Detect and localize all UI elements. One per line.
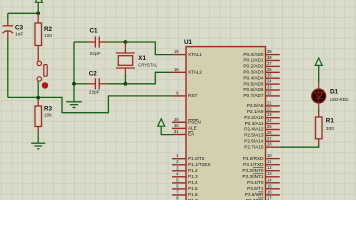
- svg-text:P2.6/A14: P2.6/A14: [244, 139, 264, 144]
- svg-text:P0.4/AD4: P0.4/AD4: [243, 75, 263, 80]
- power VCC arrow (LED): [315, 58, 322, 65]
- svg-text:P0.7/AD7: P0.7/AD7: [243, 93, 263, 98]
- capacitor C1: [88, 36, 107, 47]
- svg-text:21: 21: [267, 100, 272, 105]
- wire VCC to LED: [318, 65, 320, 83]
- svg-text:P0.2/AD2: P0.2/AD2: [243, 64, 263, 69]
- svg-text:D1: D1: [330, 88, 339, 95]
- svg-text:P2.3/A11: P2.3/A11: [245, 121, 264, 126]
- capacitor C3: [2, 21, 13, 38]
- wire XTAL2: [125, 72, 172, 84]
- svg-text:P1.6: P1.6: [188, 192, 198, 197]
- svg-text:P3.1/TXD: P3.1/TXD: [243, 162, 264, 167]
- svg-text:32: 32: [267, 90, 272, 95]
- capacitor C2: [88, 78, 107, 89]
- wire C1 horizontal: [74, 41, 88, 43]
- ground (bottom-left): [31, 143, 45, 149]
- resistor R3: [37, 99, 39, 106]
- ground (crystal caps): [66, 102, 82, 108]
- wire EA to VCC: [161, 126, 172, 134]
- svg-text:P2.0/A8: P2.0/A8: [247, 103, 264, 108]
- pin 8 P1.7 (left): [172, 196, 198, 204]
- svg-text:C2: C2: [89, 71, 98, 78]
- pin 2 P1.1/T2EX (left): [172, 159, 212, 167]
- pin 24 P2.3/A11 (right): [245, 118, 280, 126]
- svg-text:C3: C3: [15, 24, 24, 31]
- svg-text:P3.0/RXD: P3.0/RXD: [243, 156, 264, 161]
- pin 32 P0.7/AD7 (right): [243, 90, 279, 98]
- svg-text:100: 100: [44, 33, 52, 39]
- svg-text:P1.0/T2: P1.0/T2: [188, 156, 205, 161]
- svg-text:1nF: 1nF: [15, 31, 23, 37]
- svg-text:37: 37: [267, 61, 272, 66]
- svg-text:PSEN: PSEN: [188, 120, 201, 125]
- node crystal bottom: [124, 82, 128, 86]
- svg-text:P3.3/INT1: P3.3/INT1: [242, 174, 263, 179]
- pin 9 RST (left): [172, 90, 198, 98]
- svg-text:38: 38: [267, 55, 272, 60]
- svg-text:P3.2/INT0: P3.2/INT0: [242, 168, 263, 173]
- svg-text:EA: EA: [188, 132, 195, 137]
- svg-text:27: 27: [267, 136, 272, 141]
- IC U1 AT89C51 body: [186, 47, 266, 212]
- svg-text:16: 16: [267, 189, 272, 194]
- wire button to RST net: [37, 81, 39, 97]
- pin 29 PSEN (left): [172, 117, 201, 125]
- pin 37 P0.2/AD2 (right): [243, 61, 279, 69]
- wire VCC stem to node: [37, 2, 39, 13]
- svg-text:31: 31: [174, 129, 179, 134]
- svg-text:RST: RST: [188, 93, 198, 98]
- svg-text:33: 33: [267, 85, 272, 90]
- svg-text:23: 23: [267, 112, 272, 117]
- svg-text:P1.5: P1.5: [188, 186, 198, 191]
- svg-text:19: 19: [174, 49, 179, 54]
- svg-text:P1.1/T2EX: P1.1/T2EX: [188, 162, 212, 167]
- svg-text:15: 15: [267, 183, 272, 188]
- pin 31 EA (left): [172, 129, 195, 137]
- pin 14 P3.4/T0 (right): [247, 177, 280, 185]
- node crystal top: [124, 40, 128, 44]
- pin 39 P0.0/AD0 (right): [243, 49, 279, 57]
- svg-text:39: 39: [267, 49, 272, 54]
- svg-text:P3.7/RD: P3.7/RD: [246, 198, 264, 200]
- pin 7 P1.6 (left): [172, 190, 198, 198]
- svg-text:XTAL1: XTAL1: [188, 52, 202, 57]
- svg-text:14: 14: [267, 177, 272, 182]
- svg-text:28: 28: [267, 142, 272, 147]
- svg-text:XTAL2: XTAL2: [188, 70, 202, 75]
- LED D1: [312, 83, 326, 109]
- svg-text:24: 24: [267, 118, 272, 123]
- svg-text:18: 18: [174, 67, 179, 72]
- wire C1 left vertical: [73, 42, 75, 102]
- svg-text:C1: C1: [90, 28, 99, 35]
- pin 27 P2.6/A14 (right): [244, 136, 280, 144]
- wire R3 to ground: [37, 133, 39, 143]
- pin 34 P0.5/AD5 (right): [243, 79, 279, 87]
- svg-text:11: 11: [267, 159, 272, 164]
- pin 1 P1.0/T2 (left): [172, 153, 205, 161]
- pin 11 P3.1/TXD (right): [243, 159, 280, 167]
- svg-text:22pF: 22pF: [90, 51, 101, 57]
- pin 28 P2.7/A15 (right): [244, 142, 280, 150]
- pin 22 P2.1/A9 (right): [247, 106, 280, 114]
- svg-text:P1.7: P1.7: [188, 198, 198, 200]
- pin 18 XTAL2 (left): [172, 67, 202, 75]
- svg-text:P2.7/A15: P2.7/A15: [244, 144, 264, 149]
- pin 26 P2.5/A13 (right): [244, 130, 280, 138]
- wire LED to R1: [318, 109, 320, 113]
- svg-text:P3.6/WR: P3.6/WR: [245, 192, 264, 197]
- pin 5 P1.4 (left): [172, 177, 198, 185]
- pin 33 P0.6/AD6 (right): [243, 85, 279, 93]
- svg-text:P0.5/AD5: P0.5/AD5: [243, 81, 263, 86]
- pin 3 P1.2 (left): [172, 165, 198, 173]
- svg-text:P2.5/A13: P2.5/A13: [244, 133, 264, 138]
- svg-text:10k: 10k: [44, 113, 52, 119]
- svg-text:P2.2/A10: P2.2/A10: [244, 115, 264, 120]
- svg-text:P0.3/AD3: P0.3/AD3: [243, 70, 263, 75]
- node button/R3 junction: [36, 96, 40, 100]
- svg-text:34: 34: [267, 79, 272, 84]
- svg-text:P2.4/A12: P2.4/A12: [244, 127, 264, 132]
- svg-text:P3.4/T0: P3.4/T0: [247, 180, 264, 185]
- pin 21 P2.0/A8 (right): [247, 100, 280, 108]
- svg-text:P0.6/AD6: P0.6/AD6: [243, 87, 263, 92]
- svg-text:30: 30: [174, 123, 179, 128]
- pin 13 P3.3/INT1 (right): [242, 171, 279, 179]
- wire R1 to P2.7: [280, 143, 319, 148]
- wire C2 horizontal: [74, 83, 88, 85]
- svg-text:35: 35: [267, 73, 272, 78]
- svg-text:22pF: 22pF: [89, 89, 100, 95]
- svg-text:36: 36: [267, 67, 272, 72]
- svg-text:P3.5/T1: P3.5/T1: [247, 186, 264, 191]
- svg-text:10: 10: [267, 153, 272, 158]
- svg-text:R2: R2: [44, 26, 53, 33]
- svg-text:U1: U1: [184, 39, 193, 46]
- svg-text:17: 17: [267, 195, 272, 200]
- svg-text:P2.1/A9: P2.1/A9: [247, 109, 264, 114]
- svg-text:29: 29: [174, 117, 179, 122]
- pin 10 P3.0/RXD (right): [243, 153, 280, 161]
- svg-text:300: 300: [326, 126, 334, 132]
- pin 17 P3.7/RD (right): [246, 195, 280, 203]
- svg-text:X1: X1: [138, 55, 146, 62]
- svg-text:R3: R3: [44, 106, 53, 113]
- wire RST net (jogs around ground): [8, 96, 172, 113]
- svg-text:P1.4: P1.4: [188, 180, 198, 185]
- pin 38 P0.1/AD1 (right): [243, 55, 279, 63]
- pin 23 P2.2/A10 (right): [244, 112, 280, 120]
- power VCC arrow (top-left, clipped): [35, 0, 42, 2]
- svg-text:LED-RED: LED-RED: [330, 97, 348, 102]
- pin 25 P2.4/A12 (right): [244, 124, 280, 132]
- svg-text:13: 13: [267, 171, 272, 176]
- svg-text:P1.2: P1.2: [188, 168, 198, 173]
- svg-text:22: 22: [267, 106, 272, 111]
- pin 12 P3.2/INT0 (right): [242, 165, 279, 173]
- power VCC arrow (EA pin): [158, 119, 165, 126]
- pin 35 P0.4/AD4 (right): [243, 73, 279, 81]
- wire C1 to crystal node: [107, 41, 125, 43]
- svg-text:P0.0/AD0: P0.0/AD0: [243, 52, 263, 57]
- resistor R1: [318, 113, 320, 118]
- pin 30 ALE (left): [172, 123, 197, 131]
- pin 15 P3.5/T1 (right): [247, 183, 280, 191]
- svg-text:R1: R1: [326, 118, 335, 125]
- pin 16 P3.6/WR (right): [245, 189, 280, 197]
- wire down to C3: [7, 13, 9, 21]
- resistor R2: [37, 13, 39, 15]
- svg-text:P1.3: P1.3: [188, 174, 198, 179]
- svg-text:P0.1/AD1: P0.1/AD1: [243, 58, 263, 63]
- svg-text:12: 12: [267, 165, 272, 170]
- pin 6 P1.5 (left): [172, 183, 198, 191]
- node VCC junction: [36, 11, 40, 15]
- svg-text:25: 25: [267, 124, 272, 129]
- pin 4 P1.3 (left): [172, 171, 198, 179]
- wire node to C3 top: [8, 12, 38, 14]
- wire C2 to crystal node: [107, 83, 125, 85]
- svg-text:ALE: ALE: [188, 126, 197, 131]
- pin 19 XTAL1 (left): [172, 49, 202, 57]
- pushbutton (reset): [37, 61, 47, 81]
- pin 36 P0.3/AD3 (right): [243, 67, 279, 75]
- svg-text:26: 26: [267, 130, 272, 135]
- svg-text:CRYSTAL: CRYSTAL: [138, 63, 158, 68]
- wire C3 bottom down to RST net: [7, 39, 9, 98]
- wire XTAL1: [125, 42, 172, 55]
- crystal X1: [116, 42, 135, 74]
- node C2 left: [72, 82, 76, 86]
